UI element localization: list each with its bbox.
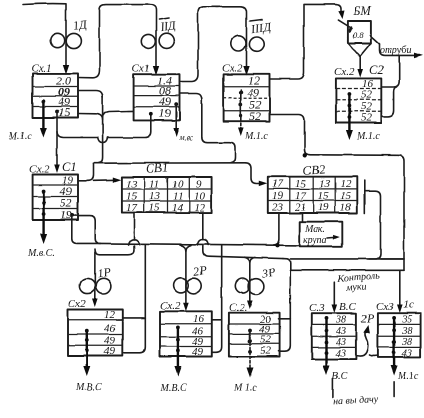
sieve box С1 bbox=[29, 160, 78, 222]
roller mill 2Р circles bbox=[174, 278, 189, 293]
wire 1Р box row1 to bracket bbox=[122, 317, 145, 319]
svg-text:2Р: 2Р bbox=[192, 263, 208, 279]
wire М.1.с arrow below box1 bbox=[42, 101, 44, 130]
wire СВ2 row2 right down to bus259 bbox=[365, 191, 381, 259]
svg-text:18: 18 bbox=[340, 202, 352, 214]
svg-text:отруби: отруби bbox=[380, 45, 412, 56]
roller mill 1Р circles bbox=[80, 278, 95, 293]
wire trunk2 from box2 down, corner right, to bus163 bbox=[202, 98, 235, 163]
wire 2Р bracket from bus245 down to box row4 bbox=[212, 245, 222, 352]
svg-text:12: 12 bbox=[340, 178, 352, 190]
svg-text:49: 49 bbox=[104, 346, 116, 358]
svg-text:Сх2: Сх2 bbox=[68, 298, 86, 310]
svg-text:11: 11 bbox=[149, 179, 159, 191]
junction blob bbox=[303, 153, 307, 157]
grading table СВ2 bbox=[268, 162, 358, 213]
wire box1 row4 dot down to С1 bbox=[56, 112, 58, 168]
wire СВ1 col1 down hop bus245 to bus254 bbox=[95, 213, 134, 255]
svg-text:С1: С1 bbox=[62, 160, 77, 174]
svg-text:15: 15 bbox=[295, 178, 307, 190]
wire box2 row2 to trunk2 bbox=[180, 94, 202, 101]
node dots С1 rows 2-4 bbox=[42, 189, 46, 193]
wire 2Р box row1 to bracket bbox=[212, 319, 222, 321]
svg-text:46: 46 bbox=[104, 323, 116, 335]
svg-text:19: 19 bbox=[159, 106, 171, 120]
svg-text:13: 13 bbox=[319, 178, 331, 190]
wire box1 row2 to trunk bbox=[78, 91, 103, 98]
wire bus163 left end down to С1 row1 feed bbox=[79, 163, 94, 181]
node dots 2Р box bbox=[176, 326, 180, 330]
arrowhead into Сх.2 #3 bbox=[243, 66, 249, 76]
node dot box2 row4 bbox=[149, 112, 153, 116]
svg-text:С.3: С.3 bbox=[309, 302, 325, 314]
svg-text:9: 9 bbox=[196, 179, 202, 191]
node dots 3Р box bbox=[248, 329, 252, 333]
svg-text:М 1.с: М 1.с bbox=[233, 383, 257, 394]
манная крупа box bbox=[299, 222, 342, 247]
wire box3 row4 right down to y155 bus bbox=[270, 115, 405, 271]
node dots Сх3 box bbox=[392, 316, 396, 320]
wire box2 left to trunk bbox=[103, 111, 134, 118]
svg-text:19: 19 bbox=[318, 202, 330, 214]
svg-text:12: 12 bbox=[104, 309, 116, 321]
svg-text:В.С: В.С bbox=[332, 371, 348, 382]
wire continue to выдачу bbox=[332, 379, 334, 398]
wire 3Р feed drop from bus256 bbox=[245, 257, 250, 303]
svg-text:Сх.2: Сх.2 bbox=[160, 300, 181, 312]
roller mill 3Р circles bbox=[235, 279, 250, 294]
svg-text:м.вс: м.вс bbox=[178, 133, 193, 142]
wire СВ1 col4 down hop bus245 corner right bus256 bbox=[203, 213, 283, 259]
svg-text:10: 10 bbox=[172, 179, 184, 191]
svg-text:СВ2: СВ2 bbox=[303, 162, 326, 178]
wire 2Р recycle curved arrow bbox=[356, 329, 368, 357]
wire М.В.С arrow below 1Р box bbox=[86, 331, 88, 368]
wire 1Р feed from bus254 bbox=[94, 252, 96, 301]
svg-text:43: 43 bbox=[336, 349, 346, 360]
svg-text:М.1.с: М.1.с bbox=[244, 131, 268, 142]
sieve box Сх.1 #1 bbox=[31, 63, 78, 120]
wire y270 line bbox=[290, 269, 404, 271]
wire С2 row4 right up merging bbox=[381, 87, 396, 116]
svg-text:3Р: 3Р bbox=[260, 265, 277, 281]
svg-text:на вы дачу: на вы дачу bbox=[333, 394, 379, 407]
node dots 1Р box bbox=[85, 329, 89, 333]
wire hop line box2 row4 to С1 feed bbox=[57, 114, 151, 138]
node dot box1 row4 bbox=[55, 110, 59, 114]
wire М.1с arrow below Сх3 bbox=[393, 318, 395, 368]
wire feed top bus to 1Д bbox=[23, 4, 66, 67]
svg-text:11: 11 bbox=[173, 191, 183, 203]
svg-text:муки: муки bbox=[345, 281, 367, 294]
wire 3Р bracket from y270 down to box row4 bbox=[279, 269, 291, 352]
svg-text:52: 52 bbox=[361, 89, 373, 101]
arrowhead into БМ inlet bbox=[338, 11, 344, 20]
svg-text:Сх1: Сх1 bbox=[132, 63, 150, 75]
sieve box 3Р bbox=[229, 302, 280, 357]
sieve box Сх3 1с bbox=[376, 299, 421, 360]
svg-text:23: 23 bbox=[272, 202, 284, 214]
svg-text:43: 43 bbox=[402, 349, 412, 360]
wire М.1.с arrow below box3 bbox=[240, 90, 242, 121]
roller mill IIД circles bbox=[141, 34, 155, 48]
svg-text:14: 14 bbox=[172, 202, 184, 214]
svg-text:В.С: В.С bbox=[339, 301, 356, 313]
svg-text:Сх.1: Сх.1 bbox=[31, 63, 51, 75]
svg-text:М.1.с: М.1.с bbox=[8, 131, 32, 142]
feed arrow into 2Р box bbox=[183, 303, 189, 312]
svg-text:38: 38 bbox=[335, 315, 346, 326]
wire continue below bbox=[393, 382, 395, 397]
wire box1 row1 up to top bus to IIД bbox=[78, 5, 156, 78]
node dot box2 row3 bbox=[174, 102, 178, 106]
grading table СВ1 bbox=[122, 160, 212, 214]
wire box1 row4 right to trunk bbox=[78, 114, 103, 121]
svg-text:0.8: 0.8 bbox=[353, 30, 364, 40]
wire С2 row1 right up to отруби line bbox=[381, 55, 399, 87]
wire 2Р feed drop from bus245 bbox=[181, 245, 186, 303]
svg-text:12: 12 bbox=[194, 202, 206, 214]
svg-text:17: 17 bbox=[126, 202, 138, 214]
wire В.С arrow below bbox=[325, 318, 327, 367]
svg-text:19: 19 bbox=[272, 190, 284, 202]
svg-text:Сх.2: Сх.2 bbox=[222, 63, 243, 75]
wire М.1.с arrow below С2 bbox=[348, 94, 350, 132]
wire СВ2 col2 down to крупа box bbox=[301, 213, 303, 222]
svg-text:М.В.С: М.В.С bbox=[75, 382, 102, 393]
svg-text:16: 16 bbox=[193, 313, 205, 325]
svg-text:52: 52 bbox=[249, 109, 261, 123]
svg-text:1Р: 1Р bbox=[96, 265, 112, 281]
svg-text:43: 43 bbox=[336, 326, 346, 337]
svg-text:13: 13 bbox=[149, 191, 161, 203]
arrowhead into Сх.1 #1 bbox=[63, 65, 69, 75]
svg-text:17: 17 bbox=[295, 190, 307, 202]
wire мвс arrow below box2 bbox=[175, 104, 177, 131]
svg-text:38: 38 bbox=[401, 326, 412, 337]
node dot С1 row4 right bbox=[70, 213, 74, 217]
svg-text:15: 15 bbox=[340, 190, 352, 202]
svg-text:52: 52 bbox=[361, 112, 373, 124]
svg-text:43: 43 bbox=[336, 337, 346, 348]
wire СВ2 col1 down merge into bus245 bbox=[274, 214, 280, 245]
svg-text:Мак.: Мак. bbox=[304, 224, 325, 235]
wire trunk1 down to bus163 bbox=[99, 95, 103, 163]
arrowhead into Сх.1 #2 bbox=[153, 66, 159, 76]
sieve box 1Р bbox=[68, 298, 122, 358]
svg-text:21: 21 bbox=[295, 202, 306, 214]
svg-text:17: 17 bbox=[272, 178, 284, 190]
svg-text:крупа: крупа bbox=[303, 235, 327, 246]
node dots box3 rows 2-4 bbox=[239, 91, 243, 95]
wire bus163 bbox=[94, 162, 246, 164]
svg-text:15: 15 bbox=[58, 105, 70, 119]
svg-text:15: 15 bbox=[318, 190, 330, 202]
БМ machine bbox=[338, 4, 379, 78]
svg-text:Сх3: Сх3 bbox=[376, 301, 394, 313]
svg-text:БМ: БМ bbox=[352, 4, 371, 18]
wire bus245 to 1Р bracket vertical bbox=[122, 245, 145, 353]
wire М.в.С arrow below С1 bbox=[42, 191, 44, 236]
roller mill IIIД circles bbox=[231, 36, 246, 51]
svg-text:Сх.2: Сх.2 bbox=[334, 66, 355, 78]
wire arrow into СВ1 bbox=[94, 179, 117, 182]
svg-text:52: 52 bbox=[260, 345, 272, 357]
svg-text:13: 13 bbox=[126, 179, 138, 191]
wire С1 row4 to bus245 bbox=[72, 216, 299, 246]
svg-text:М.В.С: М.В.С bbox=[159, 383, 186, 394]
node dots С2 rows 2-4 bbox=[348, 92, 352, 96]
sieve box ВС (контроль) bbox=[309, 301, 356, 360]
svg-text:35: 35 bbox=[401, 315, 412, 326]
svg-text:52: 52 bbox=[260, 334, 272, 346]
svg-text:49: 49 bbox=[192, 346, 204, 358]
wire М.В.С arrow below 2Р box bbox=[177, 327, 179, 368]
svg-text:М.1с: М.1с bbox=[397, 371, 419, 382]
sieve box Сх.2 #3 bbox=[222, 63, 270, 124]
svg-text:IIД: IIД bbox=[158, 18, 178, 34]
wire step down to y270 line bbox=[283, 259, 290, 269]
svg-text:1с: 1с bbox=[403, 299, 414, 311]
svg-text:2Р: 2Р bbox=[361, 311, 375, 325]
svg-text:М.в.С.: М.в.С. bbox=[27, 248, 55, 259]
wire Контроль муки arrow into ВС box bbox=[333, 282, 335, 307]
svg-text:10: 10 bbox=[194, 191, 206, 203]
wire 3Р box row1 to bracket bbox=[279, 318, 291, 320]
wire Сх3 feed from y270 bbox=[399, 270, 401, 307]
wire box3 row1 up to top bus to БМ bbox=[270, 4, 342, 79]
sieve box Сх.1 #2 bbox=[132, 63, 180, 121]
svg-text:С2: С2 bbox=[369, 63, 384, 77]
svg-text:1Д: 1Д bbox=[72, 17, 89, 33]
stray bar right of СВ2 bbox=[364, 181, 366, 213]
svg-text:15: 15 bbox=[126, 191, 138, 203]
node dot box1 row3 bbox=[42, 99, 46, 103]
отруби output arrow bbox=[380, 44, 418, 55]
svg-text:М.1.с: М.1.с bbox=[356, 131, 380, 142]
svg-text:38: 38 bbox=[401, 337, 412, 348]
sieve box 2Р bbox=[160, 300, 212, 358]
sieve box С2 bbox=[334, 63, 384, 124]
svg-text:СВ1: СВ1 bbox=[146, 160, 169, 176]
svg-text:15: 15 bbox=[149, 202, 161, 214]
wire box2 row1 up to top bus to IIIД bbox=[180, 7, 247, 82]
wire М.1.с arrow below 3Р box bbox=[249, 331, 251, 346]
roller mill 1Д circles bbox=[50, 33, 64, 47]
node dots ВС box bbox=[325, 316, 329, 320]
wire bus163 right end down to СВ2 feed bbox=[245, 163, 262, 184]
